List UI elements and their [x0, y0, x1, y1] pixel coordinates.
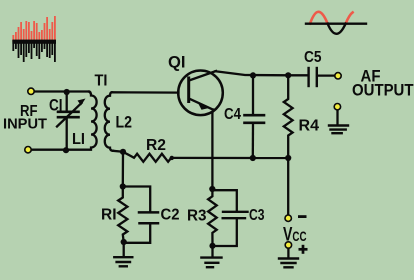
svg-text:R4: R4 — [299, 118, 320, 135]
resistor R2 — [123, 152, 171, 162]
terminal: RF input bottom — [25, 147, 31, 153]
svg-text:VCC: VCC — [283, 223, 307, 245]
svg-text:RI: RI — [101, 207, 117, 224]
junction node: L2 bottom / R2 / R1 — [120, 149, 126, 155]
terminal: Vcc plus — [285, 242, 291, 248]
label plus sign — [299, 245, 308, 254]
capacitor C1 (variable) — [57, 92, 86, 150]
wire: node down to R1/C2 — [122, 152, 124, 187]
svg-text:C5: C5 — [304, 49, 322, 66]
inductor L1 (transformer primary) — [89, 92, 97, 150]
wire: RF input top lead — [31, 90, 89, 92]
svg-text:R3: R3 — [187, 208, 207, 225]
wire: RF input bottom lead — [28, 149, 89, 151]
junction node: bottom rail / C4 — [250, 155, 256, 161]
resistor R4 — [284, 75, 293, 158]
svg-text:C2: C2 — [161, 207, 180, 224]
svg-text:INPUT: INPUT — [3, 116, 47, 133]
svg-text:LI: LI — [72, 131, 85, 148]
terminal: AF output ground — [334, 104, 340, 110]
label minus sign — [298, 215, 307, 218]
junction node: R2 right end — [170, 156, 174, 160]
wire: emitter down to R3 — [212, 110, 213, 189]
svg-text:OUTPUT: OUTPUT — [352, 81, 414, 100]
junction node: R1/C2 top — [120, 183, 126, 189]
wire: rail down to Vcc minus terminal — [287, 158, 289, 215]
wire: L2 top to Q1 base — [112, 91, 179, 94]
svg-text:TI: TI — [95, 73, 108, 90]
wire: L2 bottom to node — [113, 151, 123, 152]
ground below R3/C3 — [201, 246, 221, 267]
RF input signal waveform (modulated burst, red above / black below) — [12, 16, 56, 62]
svg-text:L2: L2 — [116, 113, 133, 132]
terminal: Vcc minus — [285, 215, 291, 221]
resistor R1 — [118, 187, 127, 243]
inductor L2 (transformer secondary) — [105, 92, 113, 151]
ground below AF output terminal — [329, 109, 348, 133]
junction node: collector rail / C4 — [250, 72, 256, 78]
svg-text:C3: C3 — [249, 207, 265, 224]
terminal: RF input top — [28, 88, 34, 94]
wire: R2 to supply rail — [171, 157, 288, 159]
junction node: R3/C3 top — [209, 186, 215, 192]
svg-text:QI: QI — [168, 53, 186, 72]
capacitor C2 — [123, 187, 158, 243]
junction node: R1/C2 bottom — [121, 239, 127, 245]
junction node: R3/C3 bottom — [209, 243, 215, 249]
capacitor C5 — [288, 68, 335, 86]
svg-text:C4: C4 — [224, 106, 241, 123]
capacitor C4 — [245, 75, 265, 158]
ground below Vcc plus terminal — [279, 247, 298, 267]
junction node: bottom rail / R4 / Vcc — [285, 155, 291, 161]
terminal: AF output — [335, 73, 341, 79]
resistor R3 — [208, 189, 217, 246]
svg-text:CI: CI — [49, 96, 63, 115]
junction node: input top — [64, 89, 70, 95]
junction node: input bottom — [63, 147, 69, 153]
junction node: collector rail / R4 / C5 — [285, 72, 291, 78]
capacitor C3 — [212, 190, 247, 246]
wire: collector rail — [216, 71, 289, 75]
svg-text:R2: R2 — [146, 137, 166, 154]
transistor Q1 — [178, 71, 223, 116]
AF sine waveform (top right) — [306, 12, 366, 34]
ground below R1/C2 — [114, 242, 132, 266]
